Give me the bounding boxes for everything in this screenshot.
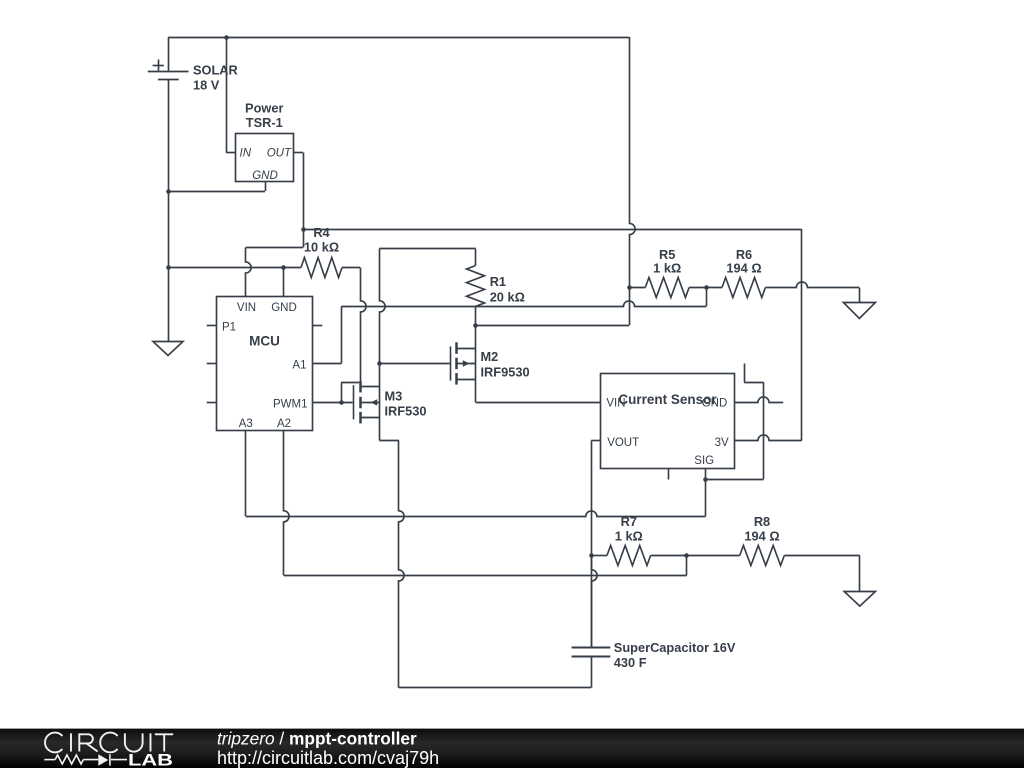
svg-text:430 F: 430 F <box>614 655 647 670</box>
svg-text:GND: GND <box>702 397 728 409</box>
svg-text:SOLAR: SOLAR <box>193 63 238 78</box>
svg-text:IRF9530: IRF9530 <box>481 364 530 379</box>
svg-text:P1: P1 <box>222 322 236 334</box>
svg-text:R7: R7 <box>621 514 637 529</box>
svg-text:18 V: 18 V <box>193 78 220 93</box>
svg-text:SIG: SIG <box>694 455 714 467</box>
svg-text:GND: GND <box>252 170 278 182</box>
svg-text:M3: M3 <box>385 388 403 403</box>
svg-text:194 Ω: 194 Ω <box>744 529 779 544</box>
svg-text:IN: IN <box>240 148 252 160</box>
svg-text:1 kΩ: 1 kΩ <box>653 261 681 276</box>
svg-text:A2: A2 <box>277 418 291 430</box>
svg-text:A1: A1 <box>292 360 306 372</box>
svg-text:GND: GND <box>271 302 297 314</box>
svg-text:A3: A3 <box>239 418 253 430</box>
svg-text:10 kΩ: 10 kΩ <box>304 239 339 254</box>
svg-text:M2: M2 <box>481 349 499 364</box>
svg-text:Power: Power <box>245 101 283 116</box>
svg-text:IRF530: IRF530 <box>385 404 427 419</box>
svg-text:R8: R8 <box>754 514 770 529</box>
svg-text:VIN: VIN <box>237 302 256 314</box>
svg-text:194 Ω: 194 Ω <box>726 261 761 276</box>
svg-text:SuperCapacitor 16V: SuperCapacitor 16V <box>614 640 736 655</box>
svg-text:R1: R1 <box>490 274 506 289</box>
svg-text:1 kΩ: 1 kΩ <box>615 529 643 544</box>
svg-text:VOUT: VOUT <box>607 437 639 449</box>
svg-text:LAB: LAB <box>128 750 173 768</box>
svg-text:MCU: MCU <box>249 334 280 349</box>
svg-text:R4: R4 <box>313 225 330 240</box>
svg-text:R5: R5 <box>659 247 675 262</box>
svg-text:http://circuitlab.com/cvaj79h: http://circuitlab.com/cvaj79h <box>217 748 439 768</box>
svg-text:20 kΩ: 20 kΩ <box>490 290 525 305</box>
svg-text:VIN: VIN <box>606 397 625 409</box>
svg-text:OUT: OUT <box>267 148 292 160</box>
svg-text:3V: 3V <box>715 437 729 449</box>
svg-text:PWM1: PWM1 <box>273 399 308 411</box>
svg-text:R6: R6 <box>736 247 752 262</box>
svg-text:tripzero / mppt-controller: tripzero / mppt-controller <box>217 729 417 749</box>
svg-text:TSR-1: TSR-1 <box>246 115 283 130</box>
